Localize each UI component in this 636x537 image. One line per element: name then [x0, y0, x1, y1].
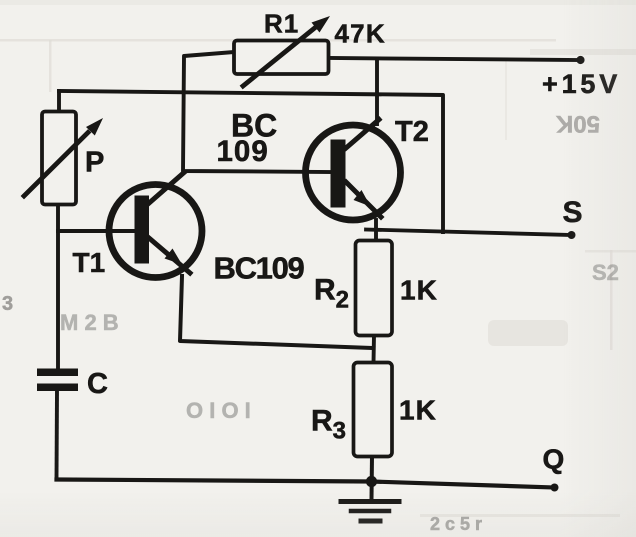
transistor T1 collector line — [148, 173, 184, 205]
transistor T2 circle — [306, 125, 401, 220]
resistor R1 arrow — [243, 29, 314, 87]
node S terminal dot — [568, 231, 576, 239]
wire: T2 collector vertical — [375, 60, 379, 125]
wire: T2 emitter down to R2 — [374, 220, 378, 241]
transistor T2 collector line — [346, 120, 379, 149]
wire: C bottom down to rail — [55, 391, 59, 479]
resistor R1 body — [234, 41, 329, 75]
svg-text:109: 109 — [217, 135, 269, 168]
wire: T1 base lead — [58, 229, 137, 233]
svg-text:T1: T1 — [73, 247, 106, 278]
potentiometer P body — [42, 112, 76, 205]
wire: top horizontal from P top across to right drop — [59, 91, 443, 232]
svg-text:T2: T2 — [395, 116, 429, 148]
wire: P top to top rail — [57, 91, 61, 112]
transistor T2 base bar — [331, 140, 346, 208]
svg-text:1K: 1K — [400, 275, 438, 306]
transistor T1 circle — [109, 185, 202, 278]
wire: R3 bottom to ground rail — [370, 456, 375, 499]
wire: S output line — [366, 230, 571, 236]
node junction dot R3/ground — [366, 476, 377, 487]
node +15V terminal dot — [576, 56, 584, 64]
svg-text:R1: R1 — [264, 9, 299, 39]
wire: +15V rail — [329, 58, 580, 60]
wire: P bottom down through T1 base node to C — [56, 204, 60, 369]
wire: R2 to R3 link — [372, 335, 376, 363]
svg-text:3: 3 — [2, 293, 13, 315]
capacitor C plates — [37, 369, 78, 377]
svg-text:47K: 47K — [335, 19, 386, 49]
resistor R2 body — [356, 241, 393, 336]
transistor T1 base bar — [135, 196, 150, 264]
svg-text:P: P — [85, 147, 104, 179]
svg-text:1K: 1K — [399, 395, 437, 426]
wire: R1 left lead, down to node, right to T2 base — [183, 52, 332, 172]
svg-text:C: C — [87, 368, 108, 400]
ground symbol — [341, 499, 399, 504]
resistor R3 body — [354, 363, 393, 457]
svg-text:M 2 B: M 2 B — [60, 310, 119, 335]
potentiometer P arrow — [24, 133, 88, 197]
transistor T1 emitter line — [149, 238, 190, 273]
node Q terminal dot — [551, 484, 559, 492]
svg-text:O I O I: O I O I — [186, 398, 251, 423]
transistor T2 emitter line — [346, 182, 381, 217]
wire: bottom rail to Q — [57, 480, 555, 488]
svg-text:BC109: BC109 — [214, 251, 305, 286]
wire: T1 emitter down then right to R2/R3 node — [180, 276, 374, 348]
